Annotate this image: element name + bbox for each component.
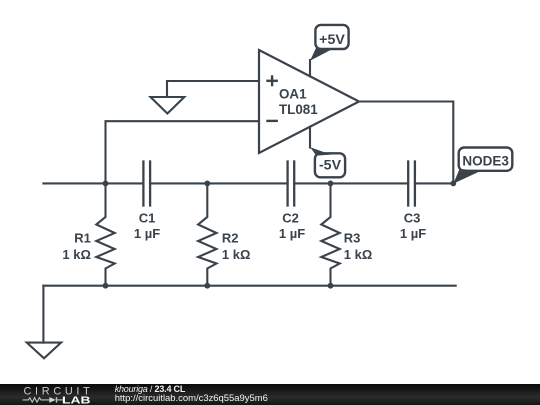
capacitor C1 name label	[139, 211, 156, 226]
capacitor C3	[408, 162, 415, 206]
svg-text:1 kΩ: 1 kΩ	[222, 247, 251, 262]
svg-text:+5V: +5V	[319, 32, 345, 48]
svg-text:1 µF: 1 µF	[400, 226, 426, 241]
terminal dot node3	[450, 181, 456, 187]
junction dot rail/R2	[204, 283, 210, 289]
resistor R1 name label	[74, 231, 91, 246]
svg-text:1 kΩ: 1 kΩ	[344, 247, 373, 262]
capacitor C1 value label 1uF	[134, 226, 160, 241]
capacitor C2 value label 1uF	[279, 226, 305, 241]
svg-text:C3: C3	[404, 211, 421, 226]
svg-text:LAB: LAB	[62, 396, 90, 405]
svg-text:R3: R3	[344, 231, 361, 246]
wire: op-amp output to node3 corner	[359, 102, 453, 184]
wire: main bus segment D	[415, 182, 453, 184]
wire: -5V supply pin	[309, 127, 311, 148]
junction dot rail/R3	[328, 283, 334, 289]
wire: rail to ground symbol	[42, 286, 44, 343]
svg-text:C2: C2	[282, 211, 299, 226]
op-amp U1 triangle	[259, 50, 359, 153]
wire: +5V supply pin	[309, 60, 311, 76]
resistor R3 value label 1k	[344, 247, 373, 262]
op-amp non-inverting + marker	[266, 75, 278, 86]
resistor R3 name label	[344, 231, 361, 246]
op-amp value label TL081	[279, 102, 318, 117]
resistor R3	[321, 183, 339, 285]
wire: non-inverting input	[167, 81, 259, 97]
wire: main bus segment A	[43, 182, 143, 184]
resistor R2 name label	[222, 231, 239, 246]
svg-text:TL081: TL081	[279, 102, 318, 117]
footer credit line	[115, 384, 185, 394]
footer bar	[0, 384, 540, 405]
flag +5V	[310, 25, 349, 61]
svg-text:NODE3: NODE3	[462, 154, 509, 169]
resistor R1	[96, 183, 114, 285]
flag -5V	[310, 147, 345, 177]
svg-text:1 µF: 1 µF	[134, 226, 160, 241]
footer url line	[115, 394, 268, 404]
op-amp name label OA1	[279, 87, 307, 102]
junction dot bus/R3	[328, 181, 334, 187]
wire: inverting input feedback	[106, 121, 260, 183]
resistor R2	[198, 183, 216, 285]
op-amp inverting - marker	[266, 120, 278, 122]
resistor R2 value label 1k	[222, 247, 251, 262]
svg-text:C1: C1	[139, 211, 156, 226]
wire: main bus segment C	[294, 182, 408, 184]
resistor R1 value label 1k	[62, 247, 91, 262]
capacitor C3 value label 1uF	[400, 226, 426, 241]
svg-text:1 µF: 1 µF	[279, 226, 305, 241]
svg-text:R2: R2	[222, 231, 239, 246]
svg-text:-5V: -5V	[319, 158, 342, 174]
svg-text:1 kΩ: 1 kΩ	[62, 247, 91, 262]
capacitor C2 name label	[282, 211, 299, 226]
wire: bottom ground rail	[43, 285, 455, 287]
junction dot bus/R1	[103, 181, 109, 187]
capacitor C1	[143, 162, 150, 206]
junction dot bus/R2	[204, 181, 210, 187]
ground (main)	[27, 343, 61, 359]
junction dot rail/R1	[103, 283, 109, 289]
CircuitLab logo	[0, 384, 110, 405]
flag NODE3	[453, 148, 512, 184]
svg-text:OA1: OA1	[279, 87, 307, 102]
capacitor C3 name label	[404, 211, 421, 226]
wire: main bus segment B	[150, 182, 288, 184]
capacitor C2	[288, 162, 295, 206]
svg-text:R1: R1	[74, 231, 91, 246]
ground (op-amp + input)	[151, 97, 185, 114]
